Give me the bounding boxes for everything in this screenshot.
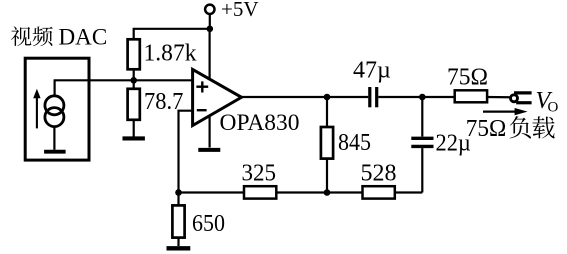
wire 650 bottom to ground [177, 238, 179, 246]
wire 325 to node D [276, 191, 327, 193]
ground (under 78.7) [123, 136, 145, 140]
node D [324, 189, 331, 196]
current source I1 [45, 96, 64, 127]
svg-text:1.87k: 1.87k [144, 41, 197, 67]
wire 22µ bottom to feedback rail [421, 148, 423, 192]
op-amp - input marker [197, 109, 207, 111]
current source arrow [33, 89, 40, 129]
node C (feedback node) [175, 189, 182, 196]
wire 528 to 22µ branch [395, 191, 423, 193]
node +5V rail [207, 26, 214, 33]
wire 78.7 bottom to ground [133, 120, 135, 137]
wire op-amp output rail [242, 96, 369, 98]
wire node A to 78.7 top [133, 80, 135, 89]
resistor R 528 [363, 186, 395, 198]
wire feedback node to 325 [179, 191, 245, 193]
wire from current source bottom to ground [53, 127, 55, 150]
svg-text:OPA830: OPA830 [220, 110, 300, 135]
wire from +5V terminal to rail [209, 14, 211, 29]
resistor R 75Ω [455, 90, 487, 102]
wire output node to 845 [326, 97, 328, 127]
svg-text:75Ω: 75Ω [466, 116, 507, 142]
svg-text:325: 325 [242, 161, 277, 187]
resistor R 650 [172, 205, 184, 237]
svg-text:47µ: 47µ [353, 57, 391, 83]
DAC box [25, 58, 89, 160]
capacitor C 47µ [370, 87, 377, 107]
ground (under 650) [167, 246, 191, 250]
svg-text:528: 528 [361, 161, 397, 187]
wire 1.87k bottom to node A [133, 69, 135, 80]
wire 47µ to 75Ω [378, 96, 454, 98]
svg-text:650: 650 [192, 211, 225, 237]
resistor R 325 [244, 186, 276, 198]
arrow (output direction) [483, 108, 528, 115]
svg-text:75Ω: 75Ω [447, 65, 488, 91]
wire top rail [134, 29, 210, 40]
resistor R 78.7 [128, 89, 140, 120]
resistor R 845 [321, 127, 333, 159]
op-amp + input marker [196, 81, 208, 92]
+5V terminal [205, 5, 214, 14]
node output [324, 94, 331, 101]
wire 845 bottom to feedback rail [326, 158, 328, 193]
wire +5V supply into op-amp top [209, 29, 211, 80]
wire node B down to 22µ [421, 97, 423, 137]
connector (output jack) [511, 93, 532, 103]
wire feedback node to 650 [177, 193, 179, 206]
node A (input node) [130, 77, 137, 84]
node B (after 47µ) [419, 94, 426, 101]
wire input rail to op-amp + input [54, 79, 193, 81]
resistor R 1.87k [128, 39, 140, 69]
wire op-amp negative supply to ground [209, 116, 211, 148]
wire node D to 528 [327, 191, 363, 193]
svg-text:O: O [548, 100, 559, 116]
svg-text:22µ: 22µ [436, 130, 471, 156]
label 视频 DAC [11, 26, 31, 46]
wire 75Ω to output connector [486, 96, 510, 99]
ground (op-amp negative supply) [198, 148, 220, 152]
capacitor C 22µ [411, 138, 433, 146]
wire stub from current source top to input rail [53, 80, 55, 96]
svg-text:845: 845 [338, 130, 371, 156]
op-amp U1 OPA830 [193, 69, 242, 125]
svg-text:+5V: +5V [221, 0, 259, 21]
wire feedback from - input down [179, 111, 193, 193]
svg-text:DAC: DAC [59, 24, 108, 49]
ground (inside DAC box) [44, 150, 66, 154]
